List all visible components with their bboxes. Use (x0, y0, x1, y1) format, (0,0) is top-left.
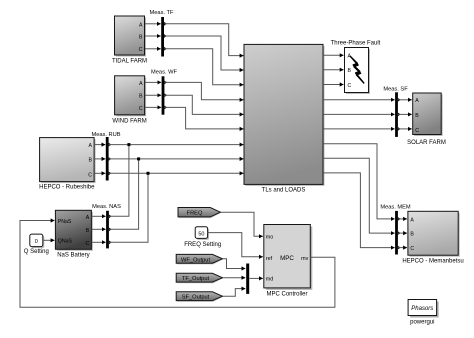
svg-text:50: 50 (198, 231, 204, 237)
svg-text:A: A (415, 98, 419, 104)
mux Mux1 (246, 264, 249, 294)
bus Meas. MEM (380, 205, 411, 255)
bus Meas. NAS (92, 204, 121, 248)
svg-text:Phasors: Phasors (411, 306, 433, 312)
svg-text:md: md (266, 277, 274, 283)
svg-text:Three-Phase Fault: Three-Phase Fault (331, 41, 381, 47)
wire TIDAL FARM B to TLs input 2 (145, 36, 243, 70)
wire Mux to MPC md (249, 277, 262, 279)
subsystem TLs and LOADS (244, 44, 325, 193)
svg-text:C: C (85, 241, 89, 247)
wire WF_Output to Mux (223, 259, 246, 269)
wire Q Setting to NaS QNaS (43, 239, 55, 241)
constant FREQ Setting (50) (184, 227, 221, 249)
wire TLs output 2 to Fault B (323, 69, 344, 71)
svg-text:C: C (410, 246, 414, 252)
wire HEPCO Rubeshibe B to TLs input 8 (94, 158, 243, 160)
subsystem HEPCO - Rubeshibe (39, 138, 95, 191)
svg-text:C: C (139, 106, 143, 112)
wire TLs output 3 to Fault C (323, 84, 344, 86)
svg-text:A: A (410, 218, 414, 224)
svg-text:HEPCO - Memanbetsu: HEPCO - Memanbetsu (402, 259, 463, 265)
wire NaS C joins Rubeshibe C line (91, 172, 149, 243)
svg-text:A: A (89, 143, 93, 149)
wire NaS A joins Rubeshibe A line (91, 143, 130, 216)
svg-text:PNaS: PNaS (58, 219, 72, 225)
svg-text:A: A (86, 215, 90, 221)
wire HEPCO Rubeshibe A to TLs input 7 (94, 144, 243, 146)
svg-text:NaS Battery: NaS Battery (57, 252, 89, 258)
svg-text:mv: mv (301, 256, 308, 262)
wire TLs output 8 to Memanbetsu B (323, 158, 407, 233)
wire MPC mv feedback to NaS PNaS (20, 221, 335, 308)
svg-text:powergui: powergui (410, 319, 434, 325)
svg-text:WF_Output: WF_Output (181, 257, 210, 263)
tag SF_Output (176, 292, 223, 302)
svg-text:HEPCO - Rubeshibe: HEPCO - Rubeshibe (39, 185, 95, 191)
svg-text:MPC Controller: MPC Controller (266, 291, 307, 297)
svg-text:A: A (139, 81, 143, 87)
svg-text:MPC: MPC (280, 255, 294, 262)
svg-text:B: B (348, 68, 352, 74)
wire TLs output 9 to Memanbetsu C (323, 173, 407, 248)
svg-text:Meas. MEM: Meas. MEM (380, 205, 411, 211)
svg-text:B: B (86, 228, 90, 234)
svg-text:QNaS: QNaS (58, 238, 73, 244)
svg-text:Meas. SF: Meas. SF (383, 87, 408, 93)
wire TLs output 5 to Solar B (323, 113, 412, 115)
svg-text:C: C (88, 172, 92, 178)
constant Q Setting (24, 234, 49, 255)
svg-text:WIND FARM: WIND FARM (112, 118, 146, 124)
subsystem Three-Phase Fault (331, 41, 381, 95)
subsystem SOLAR FARM (407, 93, 446, 146)
svg-text:TF_Output: TF_Output (182, 276, 210, 282)
subsystem HEPCO - Memanbetsu (402, 211, 463, 264)
svg-text:SF_Output: SF_Output (182, 295, 210, 301)
svg-text:mo: mo (266, 234, 274, 240)
svg-text:B: B (139, 94, 143, 100)
bus Meas. WF (151, 70, 177, 115)
powergui block (408, 300, 439, 326)
svg-text:A: A (139, 22, 143, 28)
wire SF_Output to Mux (223, 289, 246, 297)
svg-text:ref: ref (266, 256, 273, 262)
svg-text:B: B (415, 113, 419, 119)
bus Meas. TF (150, 10, 174, 57)
tag TF_Output (176, 273, 223, 283)
tag FREQ (178, 208, 222, 219)
subsystem TIDAL FARM (112, 16, 147, 65)
svg-text:TIDAL FARM: TIDAL FARM (112, 59, 147, 65)
subsystem WIND FARM (112, 76, 146, 125)
wire TLs output 4 to Solar A (323, 99, 412, 101)
wire TIDAL FARM A to TLs input 1 (145, 24, 243, 56)
svg-text:Meas. TF: Meas. TF (150, 10, 174, 16)
svg-text:TLs and LOADS: TLs and LOADS (262, 188, 306, 194)
svg-text:Meas. RUB: Meas. RUB (91, 132, 120, 138)
subsystem NaS Battery (55, 210, 93, 258)
controller MPC (264, 225, 313, 298)
svg-text:Meas. WF: Meas. WF (151, 70, 177, 76)
svg-text:B: B (410, 232, 414, 238)
wire NaS B joins Rubeshibe B line (91, 157, 140, 229)
wire WIND FARM C to TLs input 6 (145, 107, 243, 128)
wire FREQ Setting to MPC ref (208, 233, 263, 257)
wire HEPCO Rubeshibe C to TLs input 9 (94, 172, 243, 174)
wire FREQ to MPC mo (221, 212, 263, 236)
svg-text:FREQ: FREQ (187, 211, 203, 217)
wire WIND FARM B to TLs input 5 (145, 95, 243, 114)
wire TLs output 1 to Fault A (323, 54, 344, 56)
tag WF_Output (176, 254, 223, 264)
svg-text:Meas. NAS: Meas. NAS (92, 204, 121, 210)
svg-text:FREQ Setting: FREQ Setting (184, 242, 221, 248)
wire WIND FARM A to TLs input 4 (145, 82, 243, 99)
svg-text:SOLAR FARM: SOLAR FARM (407, 140, 446, 146)
wire TLs output 6 to Solar C (323, 128, 412, 130)
wire TLs output 7 to Memanbetsu A (323, 144, 407, 219)
bus Meas. RUB (91, 132, 120, 181)
wire TF_Output to Mux (223, 277, 246, 279)
svg-text:0: 0 (35, 239, 38, 245)
bus Meas. SF (383, 87, 408, 137)
svg-text:C: C (348, 83, 352, 89)
svg-text:B: B (89, 158, 93, 164)
wire TIDAL FARM C to TLs input 3 (145, 49, 243, 85)
svg-text:C: C (139, 47, 143, 53)
svg-text:B: B (139, 34, 143, 40)
svg-text:Q Setting: Q Setting (24, 249, 49, 255)
svg-text:C: C (415, 128, 419, 134)
